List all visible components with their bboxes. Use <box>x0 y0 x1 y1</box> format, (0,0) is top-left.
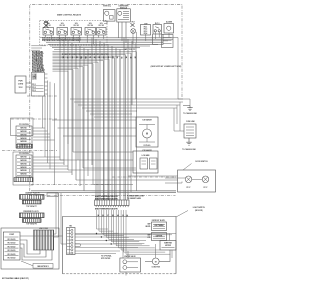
plug comb 1 female <box>23 200 42 204</box>
FF control housing <box>11 118 34 136</box>
svg-text:M: M <box>155 261 157 263</box>
bus drop wire 8 <box>87 49 89 160</box>
svg-text:DOOR SWITCH: DOOR SWITCH <box>195 161 208 163</box>
svg-text:TOP VIEW P7: TOP VIEW P7 <box>26 206 37 208</box>
wire to switch stack <box>33 127 45 129</box>
svg-text:FF LT: FF LT <box>187 187 191 189</box>
distribution wire 4 <box>137 190 177 192</box>
svg-text:RC-1: RC-1 <box>144 26 148 28</box>
FZ control housing <box>13 152 33 185</box>
left drop wire 3 <box>47 80 49 163</box>
svg-text:SW2 NO: SW2 NO <box>20 160 27 162</box>
wire relay K3 drop <box>72 36 74 41</box>
FF control switch stack <box>16 126 32 148</box>
cabinet boundary dash-dot border <box>30 4 182 195</box>
svg-text:(SEE NOTE AT LOWER LEFT SIDE): (SEE NOTE AT LOWER LEFT SIDE) <box>151 65 182 68</box>
bus drop wire 19 <box>131 41 133 105</box>
FF stack bottom comb row <box>17 144 33 148</box>
ice maker motor <box>143 129 152 138</box>
wire drops into valve and fan <box>122 248 124 259</box>
harness drop wire 2 <box>98 210 100 231</box>
wire relay K1 drop <box>44 36 46 38</box>
svg-text:ICE MAKER: ICE MAKER <box>142 119 152 122</box>
left feeder verticals into compressor box <box>55 193 57 234</box>
compressor compartment box <box>1 228 59 269</box>
svg-text:PWR: PWR <box>18 81 23 83</box>
door light box <box>178 170 216 192</box>
leader to door switch <box>183 164 192 171</box>
svg-text:COMP: COMP <box>9 234 15 236</box>
svg-text:SOL: SOL <box>61 23 64 25</box>
water valve box <box>120 258 141 272</box>
harness drop wire 7 <box>110 210 112 242</box>
FZ stack bottom comb row <box>14 178 33 182</box>
svg-text:RLY K5: RLY K5 <box>99 25 104 27</box>
svg-text:SW5 NO: SW5 NO <box>20 170 27 172</box>
right-side verticals to lights <box>179 102 181 131</box>
harness drop wire 3 <box>100 210 102 233</box>
turn wire 4 <box>84 190 176 192</box>
svg-text:FUSE LINK: FUSE LINK <box>186 121 195 123</box>
compressor box <box>3 232 20 260</box>
svg-text:RC-2: RC-2 <box>144 29 148 31</box>
wire to switch stack <box>33 133 50 135</box>
bus wire 8 <box>54 48 126 50</box>
bus wire 1 <box>40 37 178 39</box>
svg-text:M: M <box>146 133 148 136</box>
evap fan box <box>160 241 176 251</box>
main control relays dashed enclosure <box>40 20 107 45</box>
wire cond fan <box>145 260 152 262</box>
plug comb 1 male <box>20 195 45 200</box>
feed wire L1 <box>31 190 176 192</box>
bus drop wire 1 <box>59 38 61 161</box>
turn wire 5 <box>92 190 176 192</box>
svg-text:(IN DOOR): (IN DOOR) <box>195 210 203 212</box>
bus wire 6 <box>50 45 150 47</box>
line conditioner hatched box <box>34 230 54 250</box>
connector P2 box <box>32 72 45 96</box>
svg-text:SOL: SOL <box>75 23 78 25</box>
harness drop wire 1 <box>96 210 98 229</box>
left drop wire 4 <box>49 82 51 169</box>
wire relay K5 drop <box>98 36 100 38</box>
svg-text:RLY K2: RLY K2 <box>60 25 65 27</box>
wire between lights <box>192 178 202 180</box>
crossing wire <box>86 110 137 112</box>
wire loop symbol <box>75 244 81 247</box>
harness drop wire 12 <box>123 210 125 252</box>
wire comp to cond 1 <box>20 240 40 254</box>
wire to switch stack <box>33 165 68 167</box>
svg-text:RLY OVLD: RLY OVLD <box>8 258 17 260</box>
wire to switch stack <box>33 139 55 141</box>
wire transformer down <box>104 21 107 23</box>
section line 5 <box>112 176 176 178</box>
condenser fan motor <box>152 258 159 265</box>
wire to switch stack <box>33 130 48 132</box>
harness drop wire 4 <box>103 210 105 235</box>
svg-text:P9: P9 <box>34 76 36 78</box>
bus drop wire 17 <box>123 38 125 201</box>
bus drop wire 5 <box>75 44 77 180</box>
bus wire 7 <box>52 47 140 49</box>
wire evap to edge <box>169 234 171 241</box>
bus drop wire 18 <box>127 39 129 200</box>
leader to light switch <box>176 211 188 218</box>
connector teeth <box>96 206 128 208</box>
svg-text:SEE NOTE RY-2: SEE NOTE RY-2 <box>37 266 48 268</box>
harness drop wire 10 <box>118 210 120 248</box>
wire comp to cond 3 <box>20 248 52 260</box>
harness drop wire 6 <box>108 210 110 240</box>
svg-text:FF CONTROL: FF CONTROL <box>19 124 29 126</box>
ground symbol upper <box>183 106 193 111</box>
svg-text:SOL: SOL <box>89 23 92 25</box>
svg-text:DEF: DEF <box>148 234 151 236</box>
crossing wire <box>74 101 183 103</box>
junction box on boundary <box>47 193 58 197</box>
svg-text:TOP VIEW P8: TOP VIEW P8 <box>26 224 37 226</box>
wire dispenser down mid <box>121 22 123 41</box>
svg-text:SW6 NO: SW6 NO <box>20 174 27 176</box>
wire dispenser down right <box>125 22 127 43</box>
svg-text:SW2 NO: SW2 NO <box>20 131 27 133</box>
wire bus to chassis ground <box>177 38 179 100</box>
auger box <box>133 151 158 173</box>
defrost heater <box>152 233 167 241</box>
stair wire 3 <box>73 151 133 153</box>
ground symbol lower <box>186 138 191 145</box>
svg-text:SW1 NO: SW1 NO <box>20 128 27 130</box>
bus drop wire 12 <box>103 43 105 200</box>
left drop wire 5 <box>54 83 56 185</box>
svg-text:FZ CONTROL: FZ CONTROL <box>19 153 29 155</box>
wire to switch stack <box>33 159 64 161</box>
turn wire 1 <box>60 159 133 161</box>
stair wire 6 <box>58 127 137 129</box>
wires from left border to buses <box>31 45 46 47</box>
svg-text:TB1: TB1 <box>69 226 72 228</box>
distribution wire 3 <box>128 175 178 177</box>
bus wire 4 <box>46 42 163 44</box>
FZ light lamp <box>202 176 209 183</box>
ice maker box <box>136 117 158 147</box>
housing below alarm <box>162 35 174 48</box>
svg-text:ICE MAKER: ICE MAKER <box>142 149 152 152</box>
crossing wire <box>82 107 177 109</box>
machine compartment box <box>63 217 177 274</box>
wire comp to cond 2 <box>20 244 46 257</box>
harness drop wire 11 <box>120 210 122 250</box>
svg-text:SW3 NO: SW3 NO <box>20 134 27 136</box>
left drop wire 1 <box>42 96 44 128</box>
wire into fuse block <box>174 130 184 132</box>
section line 4 <box>31 184 112 186</box>
stair wire 4 <box>63 135 136 137</box>
svg-text:CORD: CORD <box>18 84 24 86</box>
bus drop wire 2 <box>63 39 65 165</box>
harness drop wire 5 <box>105 210 107 237</box>
FF light lamp <box>185 176 192 183</box>
harness drop wire 9 <box>115 210 117 246</box>
bus wire 2 <box>42 38 173 40</box>
svg-text:MOTOR: MOTOR <box>165 245 171 247</box>
wire to FZ light <box>165 182 182 184</box>
wire plug L1 <box>26 82 31 84</box>
left drop wire 2 <box>44 96 46 157</box>
stair wire 5 <box>52 119 136 121</box>
section line 3 <box>2 150 57 152</box>
svg-text:NOT SHOWN CABLE (ONLY RY): NOT SHOWN CABLE (ONLY RY) <box>2 277 29 280</box>
harness drop wire 8 <box>113 210 115 244</box>
auger sub box 1 <box>140 158 148 169</box>
bus drop wire 4 <box>71 43 73 175</box>
fuse block <box>184 124 196 138</box>
svg-text:RC-3: RC-3 <box>144 31 148 33</box>
svg-text:BK BU VT WH BR GN RD GY LBU OR: BK BU VT WH BR GN RD GY LBU OR TN <box>95 196 117 198</box>
wire to switch stack <box>33 171 72 173</box>
harness drop wire 13 <box>125 210 127 254</box>
svg-text:SOL: SOL <box>100 23 103 25</box>
relay K1 coil symbol <box>44 21 49 28</box>
svg-text:BD CONN P5: BD CONN P5 <box>125 49 135 51</box>
fan-out wires from TB1 <box>75 233 176 235</box>
turn wire 2 <box>68 169 136 171</box>
wires right components to bus <box>132 32 134 44</box>
bus drop wire 10 <box>95 39 97 200</box>
bus drop wire 13 <box>107 44 109 200</box>
bus drop wire 3 <box>67 41 69 170</box>
section line 1 <box>27 95 57 97</box>
svg-text:DEF THERM: DEF THERM <box>155 225 165 227</box>
FZ control switch stack <box>16 155 32 177</box>
distribution wire 2 <box>136 110 137 112</box>
stair wire 2 <box>83 167 136 169</box>
svg-text:BI-MTL: BI-MTL <box>146 226 151 228</box>
svg-text:LINE COND: LINE COND <box>39 228 49 230</box>
bus drop wire 15 <box>115 48 117 200</box>
wire relay K2 drop <box>58 36 60 39</box>
wire comp to center box <box>20 235 63 237</box>
distribution wire 5 <box>131 191 176 193</box>
svg-text:WTR SOL: WTR SOL <box>103 6 111 8</box>
bus drop wire 20 <box>135 43 137 99</box>
plug comb 2 female <box>23 219 42 223</box>
auger sub box 2 <box>150 158 158 169</box>
wire to switch stack <box>33 156 60 158</box>
crossing wire <box>70 98 183 100</box>
crossing wire <box>94 116 132 118</box>
feed wire N <box>31 191 176 193</box>
bus drop wire 9 <box>91 38 93 166</box>
svg-text:ALARM: ALARM <box>166 21 173 24</box>
bus wire 5 <box>48 43 158 45</box>
bus drop wire 14 <box>111 46 113 200</box>
junction dots on fan wires <box>96 233 97 234</box>
wire relay K4 drop <box>86 36 88 43</box>
svg-text:DEF: DEF <box>148 224 151 226</box>
crossing wire <box>90 113 132 115</box>
wires P2 box right <box>45 73 48 75</box>
power cord box <box>15 76 26 93</box>
bus drop wire 11 <box>99 41 101 200</box>
wire to switch stack <box>33 168 68 170</box>
bracket below relay K6 <box>153 34 164 45</box>
svg-text:DEF HTR: DEF HTR <box>156 236 163 238</box>
wire to switch stack <box>33 162 64 164</box>
wire to FF light <box>165 177 185 179</box>
svg-text:MAIN CONTROL RELAYS: MAIN CONTROL RELAYS <box>57 13 82 16</box>
svg-text:SW3 NO: SW3 NO <box>20 163 27 165</box>
plug comb 2 male <box>20 213 45 218</box>
stair wire 1 <box>93 184 133 186</box>
distribution wire 1 <box>132 116 136 118</box>
main harness connector comb <box>95 200 129 206</box>
turn wire 3 <box>76 179 178 181</box>
bus drop wire 7 <box>83 48 85 191</box>
terminal strip TB1 <box>67 228 76 255</box>
svg-text:SW5 NO: SW5 NO <box>20 141 27 143</box>
crossing wire <box>78 104 180 106</box>
svg-text:RLY K3: RLY K3 <box>74 25 79 27</box>
wire plug N <box>26 86 31 88</box>
bus wire 3 <box>44 40 168 42</box>
svg-text:LIGHT SWITCH: LIGHT SWITCH <box>193 207 206 209</box>
wire dispenser down left <box>118 22 120 38</box>
section line 2 <box>11 118 57 120</box>
wire to switch stack <box>33 136 50 138</box>
bus drop wire 16 <box>119 49 121 200</box>
svg-text:WTR FILTER: WTR FILTER <box>101 258 111 260</box>
defrost thermostat <box>152 222 167 231</box>
svg-text:DISPENSER: DISPENSER <box>119 6 130 8</box>
svg-text:FZ LT: FZ LT <box>204 187 208 189</box>
svg-text:SW1 NO: SW1 NO <box>20 157 27 159</box>
bus drop wire 6 <box>79 46 81 186</box>
inner label box with leader <box>33 264 53 269</box>
